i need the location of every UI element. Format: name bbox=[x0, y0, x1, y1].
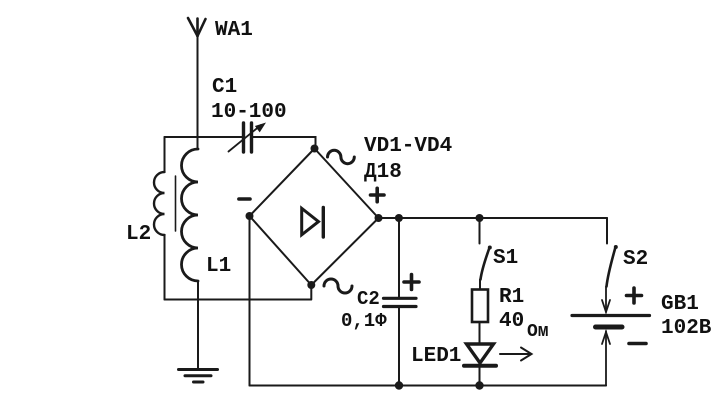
resistor R1 bbox=[472, 290, 488, 323]
wire plus rail bbox=[379, 217, 608, 219]
wire R1 to LED1 bbox=[479, 322, 481, 344]
wire top-left horizontal to C1 bbox=[165, 136, 243, 138]
arrow (LED indicator) bbox=[500, 348, 532, 361]
wire battery minus arrow down to bottom rail bbox=[602, 331, 610, 386]
wire C2 bottom bbox=[398, 308, 400, 386]
diode symbol inside bridge bbox=[302, 208, 324, 238]
battery GB1 plate minus bbox=[596, 325, 623, 330]
coil L2 bbox=[154, 137, 165, 300]
svg-text:S2: S2 bbox=[623, 248, 648, 271]
wire bridge bottom node to tank bottom wire bbox=[310, 285, 312, 300]
svg-text:40: 40 bbox=[499, 310, 524, 333]
diode bridge VD1-VD4 bbox=[250, 149, 379, 286]
svg-text:R1: R1 bbox=[499, 286, 524, 309]
svg-text:10-100: 10-100 bbox=[211, 101, 287, 124]
svg-text:C1: C1 bbox=[212, 76, 237, 99]
junction S1 tap bbox=[476, 214, 484, 222]
svg-text:102В: 102В bbox=[661, 317, 712, 340]
switch S1 contact blob bbox=[488, 246, 492, 250]
switch S2 contact blob bbox=[614, 245, 618, 249]
wire LED1 to bottom rail bbox=[479, 366, 481, 386]
wire C2 top bbox=[398, 218, 400, 297]
svg-text:S1: S1 bbox=[493, 247, 518, 270]
svg-text:L2: L2 bbox=[126, 223, 151, 246]
label plus (bridge) bbox=[371, 188, 385, 201]
svg-text:0,1Ф: 0,1Ф bbox=[341, 310, 387, 332]
ground bbox=[179, 370, 218, 383]
wire bottom rail bbox=[250, 385, 607, 387]
wire C1 to bridge top node bbox=[252, 137, 316, 148]
coil L1 bbox=[182, 149, 199, 281]
node bridge top bbox=[311, 145, 319, 153]
svg-text:Ом: Ом bbox=[527, 322, 549, 342]
svg-text:WA1: WA1 bbox=[215, 19, 253, 42]
node bridge left bbox=[246, 212, 254, 220]
svg-text:LED1: LED1 bbox=[411, 345, 461, 368]
svg-text:VD1-VD4: VD1-VD4 bbox=[364, 135, 452, 158]
wire L1 bottom down to ground bbox=[197, 282, 199, 370]
node bridge right bbox=[375, 214, 383, 222]
svg-text:L1: L1 bbox=[206, 255, 231, 278]
switch S1 bbox=[481, 248, 490, 280]
AC squiggle top bbox=[328, 150, 355, 163]
node C2 tap bbox=[395, 214, 403, 222]
AC squiggle bottom bbox=[324, 279, 352, 293]
wire plus rail corner down to S2 bbox=[606, 218, 608, 244]
capacitor C1 (variable) bbox=[229, 123, 267, 153]
capacitor C2 bbox=[384, 298, 417, 306]
junction C2 bottom bbox=[395, 381, 403, 389]
wire bridge left node down to bottom rail bbox=[249, 216, 251, 386]
antenna WA1 bbox=[188, 18, 206, 36]
svg-text:C2: C2 bbox=[357, 288, 380, 310]
battery GB1 plate plus bbox=[572, 314, 650, 317]
wire S2 arrow to battery plus bbox=[602, 287, 610, 313]
label minus (GB1) bbox=[629, 342, 646, 346]
wire rectangle bottom edge bbox=[165, 299, 312, 301]
svg-text:Д18: Д18 bbox=[364, 161, 402, 184]
switch S2 bbox=[607, 247, 616, 287]
label minus (bridge) bbox=[239, 197, 250, 201]
LED LED1 bbox=[464, 344, 496, 366]
core between L2 and L1 bbox=[175, 176, 177, 231]
wire antenna lead down to L1 bbox=[197, 36, 199, 149]
label plus (GB1) bbox=[627, 288, 642, 303]
node bridge bottom bbox=[307, 281, 315, 289]
svg-text:GB1: GB1 bbox=[661, 293, 699, 316]
junction LED1 bottom bbox=[475, 381, 483, 389]
wire S1 top bbox=[479, 218, 481, 244]
wire S1 to R1 bbox=[479, 280, 481, 290]
label plus (C2) bbox=[404, 275, 419, 290]
